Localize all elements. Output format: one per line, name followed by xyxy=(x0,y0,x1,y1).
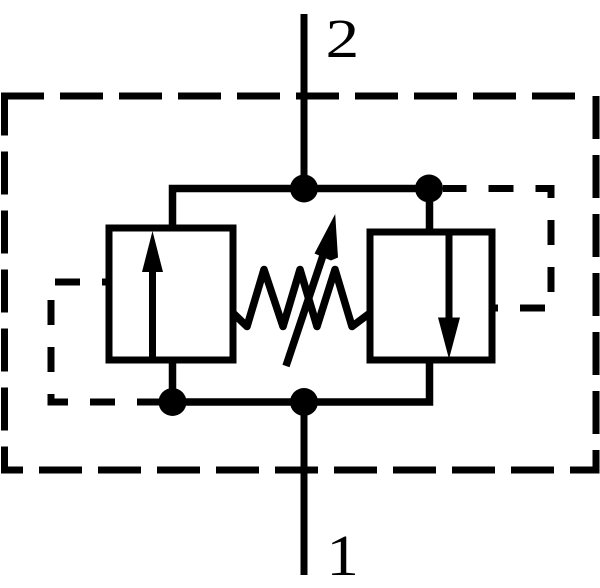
svg-text:1: 1 xyxy=(326,524,358,588)
svg-text:2: 2 xyxy=(326,9,360,70)
